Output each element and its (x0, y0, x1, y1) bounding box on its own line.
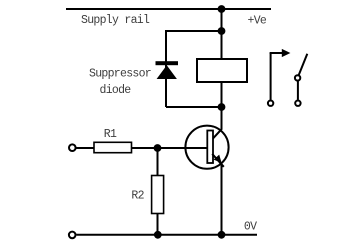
svg-text:R2: R2 (131, 190, 144, 203)
wire: input terminal to R1 (76, 147, 94, 149)
transistor Q1 (circle) (185, 126, 228, 169)
svg-text:Supply rail: Supply rail (81, 14, 150, 27)
wire: diode branch bottom horizontal (166, 106, 222, 108)
transistor Q1 emitter lead (diagonal with arrow) (212, 154, 224, 167)
svg-text:+Ve: +Ve (248, 15, 267, 28)
node: junction dot R2/0V (154, 231, 162, 239)
relay contact: switch blade (diagonal) (299, 54, 308, 75)
svg-text:Suppressor: Suppressor (89, 67, 151, 80)
svg-text:diode: diode (100, 84, 132, 97)
input terminal (open circle) (69, 144, 76, 151)
node: junction dot diode top (218, 27, 226, 35)
suppressor diode (cathode bar) (156, 61, 179, 65)
relay contact: pivot (open circle) (295, 75, 300, 80)
relay coil (rectangle) (197, 59, 247, 82)
node: junction dot emitter/0V (218, 231, 226, 239)
transistor Q1 collector lead (diagonal) (213, 129, 222, 139)
wire: diode branch vertical (165, 30, 167, 107)
suppressor diode (triangle, pointing up) (157, 65, 177, 79)
supply rail +Ve (top horizontal wire) (66, 8, 271, 10)
relay contact: actuation link vertical wire (270, 53, 272, 100)
relay contact: actuation arrow (horizontal with arrowhead) (270, 52, 283, 54)
svg-text:0V: 0V (244, 221, 257, 234)
wire: junction down to transistor collector (221, 107, 223, 129)
relay contact: wire between terminals (297, 81, 299, 100)
transistor Q1 base bar (207, 131, 213, 164)
0V rail (bottom horizontal wire) (76, 234, 257, 236)
node: junction dot on supply rail (218, 5, 226, 13)
wire: emitter down to 0V rail (221, 164, 223, 235)
node: junction dot base/R2 (154, 144, 162, 152)
terminal bottom-left (open circle) (69, 232, 76, 239)
svg-text:R1: R1 (104, 128, 117, 141)
wire: diode branch top horizontal (166, 30, 222, 32)
resistor R2 (box) (152, 176, 164, 214)
node: junction dot diode bottom / collector (218, 103, 226, 111)
wire: junction down to R2 (157, 148, 159, 176)
resistor R1 (box) (94, 142, 132, 152)
wire: supply rail down to relay coil (221, 9, 223, 59)
wire: relay coil bottom to junction (221, 82, 223, 107)
wire: base wire from R1 junction to base bar (132, 147, 208, 149)
relay contact: right fixed terminal (open circle) (295, 101, 300, 106)
relay contact: left pole terminal (open circle) (268, 101, 273, 106)
wire: R2 bottom to 0V rail (157, 214, 159, 235)
